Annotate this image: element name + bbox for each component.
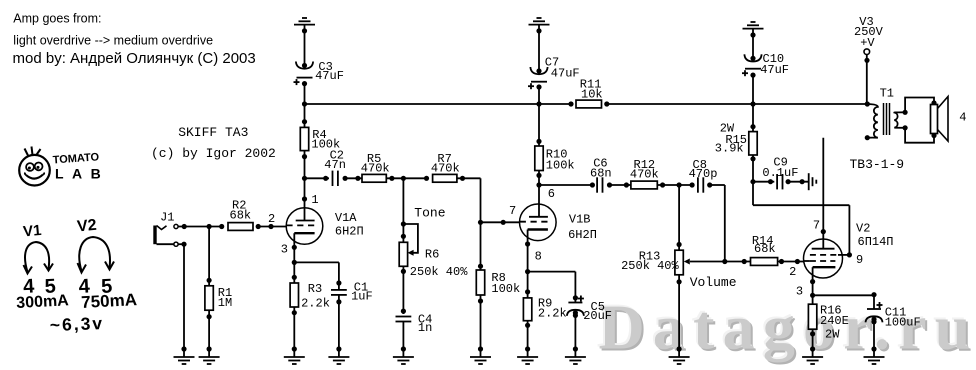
svg-text:2W: 2W — [825, 327, 840, 341]
wire secondary to speaker — [905, 98, 937, 143]
svg-text:Tone: Tone — [414, 206, 445, 221]
svg-text:470p: 470p — [689, 167, 718, 181]
capacitor C4 — [396, 309, 433, 350]
handwritten 300mA — [16, 292, 70, 312]
svg-text:V1A: V1A — [335, 211, 357, 225]
wire pin9 stub — [842, 254, 849, 256]
ground C9 sideways — [809, 173, 817, 190]
wire rail to C10 — [750, 29, 755, 58]
handwritten V1 — [22, 222, 42, 241]
svg-text:V2: V2 — [856, 222, 870, 236]
handwritten V1 arrows — [24, 242, 54, 274]
capacitor C3 — [294, 60, 344, 86]
svg-text:100uF: 100uF — [885, 316, 921, 330]
pin 3 label — [281, 243, 288, 257]
svg-text:3: 3 — [796, 285, 803, 299]
capacitor C5 — [567, 296, 612, 350]
svg-text:1n: 1n — [418, 321, 432, 335]
svg-text:68n: 68n — [590, 167, 612, 181]
svg-text:10k: 10k — [581, 87, 603, 101]
title Volume — [690, 275, 737, 290]
handwritten V2 arrows — [78, 237, 115, 273]
logo text TOMATO — [52, 151, 100, 166]
svg-text:68k: 68k — [230, 208, 252, 222]
node V1A anode junction — [302, 176, 307, 181]
svg-text:20uF: 20uF — [583, 309, 612, 323]
handwritten V2 — [76, 217, 97, 236]
svg-text:R3: R3 — [308, 282, 322, 296]
resistor R7 — [424, 152, 465, 182]
node tone junction — [401, 176, 406, 181]
svg-text:(c) by Igor 2002: (c) by Igor 2002 — [151, 146, 276, 161]
resistor R10 — [535, 104, 575, 204]
svg-text:SKIFF TA3: SKIFF TA3 — [178, 125, 248, 140]
pin 6 label — [548, 187, 555, 201]
svg-text:47n: 47n — [324, 158, 346, 172]
pentode V2 — [804, 222, 894, 282]
ground R1 — [199, 346, 220, 364]
svg-text:7: 7 — [813, 219, 820, 233]
transformer label TB3-1-9 — [850, 157, 905, 172]
node V1B anode junction — [536, 182, 541, 187]
svg-text:250k 40%: 250k 40% — [410, 265, 468, 279]
svg-text:light overdrive --> medium ove: light overdrive --> medium overdrive — [13, 34, 213, 48]
wire R7 to V1B grid — [457, 178, 520, 270]
svg-text:47uF: 47uF — [760, 63, 789, 77]
ground C1 — [328, 346, 349, 364]
svg-text:4: 4 — [959, 111, 966, 125]
potentiometer R6 — [399, 224, 468, 314]
wire V1A cathode — [292, 245, 297, 283]
pin 8 label — [535, 250, 542, 264]
title Tone — [414, 206, 445, 221]
wire V1B anode row — [539, 182, 595, 187]
svg-text:2.2k: 2.2k — [538, 307, 567, 321]
svg-text:J1: J1 — [160, 211, 174, 225]
resistor R1 — [205, 224, 232, 349]
ground C4 — [393, 346, 414, 364]
capacitor C1 — [331, 280, 373, 349]
svg-text:V1B: V1B — [569, 212, 591, 226]
speaker LS1 — [931, 97, 949, 142]
svg-text:6П14П: 6П14П — [858, 235, 894, 249]
capacitor C8 — [689, 158, 725, 262]
pin 7 label V2 — [813, 219, 820, 233]
wire J1 tip — [178, 224, 222, 229]
title (c) by Igor 2002 — [151, 146, 276, 161]
svg-text:1uF: 1uF — [351, 290, 373, 304]
transformer T1 secondary — [894, 110, 907, 131]
title SKIFF TA3 — [178, 125, 248, 140]
speaker impedance label — [959, 111, 966, 125]
wire J1 sleeve — [178, 242, 186, 349]
annotation text block — [13, 12, 256, 68]
ground R16 — [802, 346, 823, 364]
ground R8 — [470, 346, 491, 364]
capacitor C11 — [866, 302, 921, 349]
triode V1A — [286, 208, 364, 248]
transformer T1 label — [880, 87, 894, 101]
handwritten V1 pins 4 5 — [23, 275, 57, 298]
supply rail above C7 — [529, 18, 550, 25]
wire R2 to grid — [258, 224, 286, 229]
wire cathode to C1 — [294, 262, 341, 289]
resistor R16 — [808, 304, 848, 349]
wire C7 to bus — [538, 87, 540, 104]
wire anode to pin1 — [302, 178, 307, 208]
node volume junction — [677, 182, 682, 187]
svg-text:7: 7 — [509, 204, 516, 218]
supply rail above C10 — [743, 22, 764, 29]
svg-text:47uF: 47uF — [551, 66, 580, 80]
ground C5 — [565, 346, 586, 364]
capacitor C9 — [753, 156, 809, 190]
svg-text:0.1uF: 0.1uF — [762, 166, 798, 180]
pin 2 label V2 — [789, 265, 796, 279]
resistor R15 — [715, 104, 757, 205]
svg-text:3: 3 — [281, 243, 288, 257]
wire volume branch — [677, 185, 682, 250]
svg-text:470k: 470k — [361, 162, 390, 176]
resistor R12 — [630, 158, 692, 189]
wire tone branch — [401, 178, 406, 242]
svg-text:470k: 470k — [630, 168, 659, 182]
node screen node — [750, 179, 755, 184]
pin 3 label V2 — [796, 285, 803, 299]
wire screen to pin9 — [753, 205, 852, 257]
resistor R11 — [568, 77, 609, 108]
resistor R3 — [290, 282, 330, 349]
capacitor C6 — [590, 157, 631, 193]
resistor R4 — [300, 104, 340, 178]
svg-text:1: 1 — [311, 193, 318, 207]
svg-text:750mA: 750mA — [81, 290, 138, 312]
svg-text:3.9k: 3.9k — [715, 142, 744, 156]
triode V1B — [520, 204, 597, 244]
svg-text:2.2k: 2.2k — [301, 297, 330, 311]
pin 7 label V1B — [509, 204, 516, 218]
logo text LAB — [55, 166, 109, 182]
resistor R2 — [219, 199, 261, 231]
svg-text:100k: 100k — [491, 282, 520, 296]
svg-text:LAB: LAB — [55, 166, 109, 182]
svg-text:6: 6 — [548, 187, 555, 201]
pin 9 label — [856, 253, 863, 267]
wire V1B cathode — [525, 241, 530, 298]
resistor R9 — [523, 297, 566, 349]
resistor R5 — [361, 152, 427, 182]
wire plate to pin7 — [821, 138, 826, 240]
handwritten 750mA — [81, 290, 138, 312]
handwritten V2 pins 4 5 — [78, 275, 113, 298]
supply rail above C3 — [294, 18, 315, 25]
svg-text:R6: R6 — [425, 247, 439, 261]
wire C10 to bus — [752, 75, 754, 104]
svg-text:6Н2П: 6Н2П — [568, 228, 597, 242]
svg-text:240E: 240E — [820, 314, 849, 328]
ground R9 — [517, 346, 538, 364]
wire anode row — [305, 176, 330, 181]
resistor R8 — [476, 270, 520, 349]
ground R3 — [284, 346, 305, 364]
svg-text:470k: 470k — [431, 162, 460, 176]
watermark Datagor.ru — [597, 290, 976, 365]
transformer T1 core — [884, 103, 890, 135]
svg-text:300mA: 300mA — [16, 292, 70, 312]
svg-text:+V: +V — [860, 36, 875, 50]
svg-text:V2: V2 — [76, 217, 97, 236]
transformer T1 primary — [865, 101, 878, 140]
svg-text:2: 2 — [268, 212, 275, 226]
svg-text:47uF: 47uF — [315, 69, 344, 83]
svg-text:2: 2 — [789, 265, 796, 279]
svg-text:68k: 68k — [754, 242, 776, 256]
svg-text:Amp goes from:: Amp goes from: — [13, 12, 101, 26]
node C8 wiper junction — [722, 259, 727, 264]
svg-text:T1: T1 — [880, 87, 894, 101]
svg-text:100k: 100k — [546, 159, 575, 173]
svg-text:TB3-1-9: TB3-1-9 — [850, 157, 905, 172]
wire B+ bus left — [302, 101, 571, 106]
svg-text:250k 40%: 250k 40% — [621, 259, 679, 273]
logo tomato face — [19, 147, 50, 186]
svg-text:~6,3v: ~6,3v — [49, 313, 104, 335]
wire cathode to C5 — [528, 272, 578, 303]
svg-text:8: 8 — [535, 250, 542, 264]
wire C3 to bus — [304, 84, 306, 104]
handwritten ~6,3v — [49, 313, 104, 335]
wire rail to C7 — [536, 25, 541, 71]
connector J1 — [155, 211, 178, 247]
ground J1 — [174, 346, 195, 364]
terminal V3 +V — [854, 15, 884, 54]
capacitor C7 — [528, 55, 580, 89]
svg-text:1M: 1M — [218, 296, 232, 310]
pin 2 label — [268, 212, 275, 226]
svg-text:mod by: Андрей Олиянчук (С) 20: mod by: Андрей Олиянчук (С) 2003 — [13, 50, 256, 67]
wire rail to C3 — [302, 25, 307, 65]
svg-text:Volume: Volume — [690, 275, 737, 290]
svg-text:V1: V1 — [22, 222, 42, 241]
capacitor C10 — [742, 52, 789, 77]
wire V3 to transformer — [864, 55, 869, 105]
capacitor C2 — [324, 149, 362, 186]
potentiometer R13 — [621, 250, 725, 349]
svg-text:6Н2П: 6Н2П — [335, 225, 364, 239]
svg-text:9: 9 — [856, 253, 863, 267]
pin 1 label — [311, 193, 318, 207]
wire V2 cathode — [810, 279, 815, 304]
wire cathode to C11 — [813, 292, 877, 309]
ground C11 — [864, 346, 885, 364]
ground R13 — [669, 346, 690, 364]
resistor R14 — [725, 234, 804, 266]
wire B+ bus right — [607, 101, 868, 106]
